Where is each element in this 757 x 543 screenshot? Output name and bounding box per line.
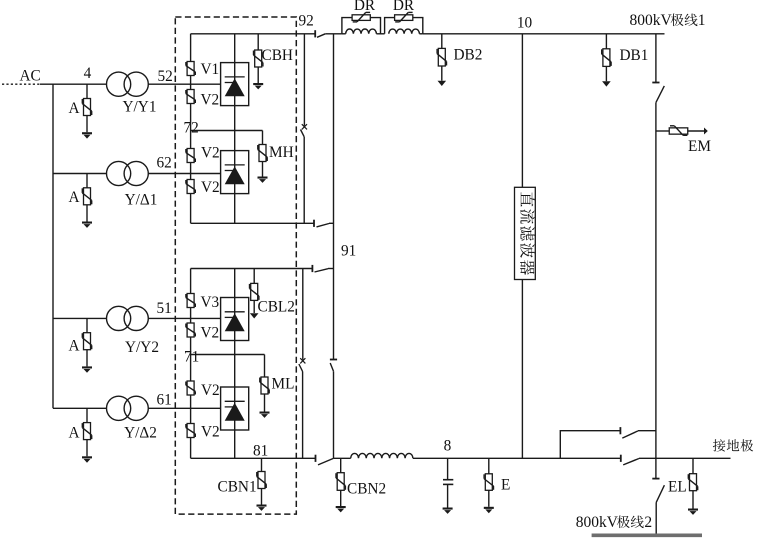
- svg-text:51: 51: [157, 300, 172, 317]
- svg-text:800kV: 800kV: [576, 514, 619, 531]
- disconnector lower inlet: [312, 265, 333, 272]
- svg-text:CBL2: CBL2: [258, 299, 295, 316]
- svg-text:A: A: [69, 425, 80, 442]
- label A3: [69, 338, 80, 355]
- svg-text:Y/Δ1: Y/Δ1: [125, 192, 158, 209]
- wire bypass line B: [302, 269, 304, 360]
- label A2: [69, 189, 80, 206]
- node 71: [184, 349, 199, 366]
- wire pole-1 drop: [655, 34, 657, 83]
- arrester MH: [258, 131, 268, 183]
- svg-text:V3: V3: [201, 294, 220, 311]
- arrester V1: [186, 62, 195, 76]
- svg-text:V2: V2: [201, 382, 220, 399]
- arrester DR1: [352, 12, 370, 22]
- svg-text:61: 61: [157, 392, 172, 409]
- arrester DB1: [602, 34, 611, 87]
- svg-text:4: 4: [84, 65, 92, 82]
- label CBH: [262, 47, 293, 64]
- arrester CBN1: [257, 458, 267, 511]
- wire AC incoming (dotted): [2, 83, 40, 85]
- svg-text:DB1: DB1: [620, 47, 649, 64]
- disconnector line A: [301, 124, 308, 223]
- label Y/Y1: [123, 99, 157, 116]
- svg-text:81: 81: [253, 443, 268, 460]
- reactor DR2 bypass loop: [385, 18, 423, 34]
- label ground electrode: [713, 439, 753, 451]
- label 800kV pole line 1: [630, 12, 706, 29]
- arrester E: [484, 458, 494, 513]
- svg-text:DR: DR: [354, 0, 376, 14]
- wire bypass line A: [303, 34, 305, 126]
- label A1: [69, 100, 80, 117]
- label DR2: [393, 0, 415, 14]
- node 71 wire: [191, 354, 265, 356]
- svg-text:V2: V2: [201, 179, 220, 196]
- svg-text:Y/Y2: Y/Y2: [125, 339, 159, 356]
- node 91: [341, 243, 356, 260]
- arrester EL: [688, 458, 698, 515]
- node 61: [157, 392, 172, 409]
- label V2a: [201, 92, 220, 109]
- svg-text:1: 1: [698, 12, 706, 29]
- arrester DR2: [395, 12, 413, 22]
- wire feeder to T3: [53, 317, 107, 319]
- wire T2 to valve: [148, 173, 220, 175]
- wire 92 bus left: [191, 33, 316, 35]
- label MH: [269, 144, 294, 161]
- arrester A3: [82, 318, 92, 372]
- svg-text:92: 92: [299, 13, 314, 30]
- wire 92 bus to reactor: [342, 33, 346, 35]
- label DR1: [354, 0, 376, 14]
- svg-text:EL: EL: [668, 479, 687, 496]
- arrester V2 lower-c: [186, 424, 195, 438]
- label DB2: [454, 47, 483, 64]
- label A4: [69, 425, 80, 442]
- arrester V2 upper-c: [186, 180, 195, 194]
- svg-text:52: 52: [158, 68, 173, 85]
- node 10: [517, 15, 533, 32]
- reactor DR1 bypass loop: [342, 18, 381, 34]
- wire valve1 center column: [234, 34, 236, 224]
- arrester A2: [82, 174, 92, 228]
- arrester DB2: [437, 34, 446, 86]
- valve group V-low-1: [221, 298, 249, 341]
- transformer T2 Y/D1: [107, 161, 149, 185]
- label EL: [668, 479, 687, 496]
- wire valve2 center column: [234, 269, 236, 459]
- svg-text:ML: ML: [272, 376, 295, 393]
- label Y/Delta2: [124, 425, 157, 442]
- transformer T3 Y/Y2: [107, 306, 149, 330]
- arrester A4: [82, 408, 92, 462]
- disconnector pole-1: [652, 83, 664, 479]
- label CBL2: [258, 299, 295, 316]
- label CBN2: [347, 481, 386, 498]
- svg-text:CBH: CBH: [262, 47, 293, 64]
- wire lower-left valve column: [190, 269, 192, 459]
- svg-text:AC: AC: [20, 68, 41, 85]
- node 72: [184, 120, 199, 137]
- label V2b: [201, 145, 220, 162]
- label Y/Y2: [125, 339, 159, 356]
- svg-text:DB2: DB2: [454, 47, 483, 64]
- disconnector bus outlet: [316, 455, 334, 465]
- DC filter box: [515, 187, 536, 279]
- disconnector line B: [299, 358, 306, 458]
- svg-text:91: 91: [341, 243, 356, 260]
- svg-text:10: 10: [517, 15, 533, 32]
- transformer T1 Y/Y1: [107, 72, 149, 96]
- arrester V2 upper-b: [186, 149, 195, 163]
- label ML: [272, 376, 295, 393]
- wire AC bus to transformer T1: [40, 83, 107, 85]
- wire 800kV pole line 2 bar: [592, 533, 702, 537]
- label EM: [688, 138, 711, 155]
- wire upper-left valve column: [190, 34, 192, 224]
- node 52: [158, 68, 173, 85]
- wire upper group outlet: [191, 222, 314, 224]
- svg-text:Y/Y1: Y/Y1: [123, 99, 157, 116]
- wire T4 to valve: [148, 407, 220, 409]
- svg-text:62: 62: [157, 155, 172, 172]
- label CBN1: [218, 479, 257, 496]
- label V2e: [201, 382, 220, 399]
- valve group V-high-2: [221, 151, 249, 194]
- wire line 91 vertical: [333, 34, 335, 360]
- dashed converter enclosure: [175, 17, 296, 514]
- wire feeder to T4: [53, 407, 107, 409]
- valve group V-low-2: [221, 387, 249, 430]
- label DB1: [620, 47, 649, 64]
- label DC filter (vertical): [520, 192, 535, 275]
- svg-text:Y/Δ2: Y/Δ2: [124, 425, 157, 442]
- svg-text:CBN2: CBN2: [347, 481, 386, 498]
- disconnector bypass upper: [620, 427, 656, 438]
- arrester CBL2: [250, 269, 259, 319]
- arrester EM branch: [656, 126, 704, 136]
- arrester ML: [260, 355, 270, 418]
- svg-text:V1: V1: [201, 61, 220, 78]
- node 8: [444, 438, 452, 455]
- wire bus to reactor: [333, 457, 351, 459]
- label V3: [201, 294, 220, 311]
- node 62: [157, 155, 172, 172]
- svg-text:V2: V2: [201, 424, 220, 441]
- label V2c: [201, 179, 220, 196]
- label 800kV pole line 2: [576, 514, 652, 531]
- label V2d: [201, 325, 220, 342]
- wire AC feeder vertical: [52, 84, 54, 408]
- wire DC filter lower: [521, 280, 523, 459]
- svg-text:2: 2: [644, 514, 652, 531]
- svg-text:A: A: [69, 100, 80, 117]
- node 51: [157, 300, 172, 317]
- svg-text:71: 71: [184, 349, 199, 366]
- arrester CBN2: [336, 458, 346, 512]
- arrester V2 lower-a: [186, 323, 195, 337]
- reactor neutral bus coil: [351, 453, 413, 458]
- label AC: [20, 68, 41, 85]
- wire neutral bus: [413, 457, 621, 459]
- svg-text:A: A: [69, 189, 80, 206]
- wire feeder to T2: [53, 173, 107, 175]
- reactor DR2 coil: [389, 29, 423, 34]
- wire lower group inlet: [191, 268, 313, 270]
- arrester CBH: [253, 34, 263, 90]
- arrester V3: [186, 294, 195, 308]
- svg-text:A: A: [69, 338, 80, 355]
- label V2f: [201, 424, 220, 441]
- wire T1 to valve V1: [148, 83, 220, 85]
- wire bypass branch: [560, 431, 620, 459]
- svg-text:CBN1: CBN1: [218, 479, 257, 496]
- svg-text:MH: MH: [269, 144, 294, 161]
- valve group V-high-1: [221, 63, 249, 106]
- disconnector pole-2: [656, 485, 664, 533]
- svg-text:8: 8: [444, 438, 452, 455]
- arrester A1: [82, 84, 92, 138]
- node 81: [253, 443, 268, 460]
- transformer T4 Y/D2: [107, 396, 149, 420]
- svg-text:E: E: [501, 477, 510, 494]
- svg-text:V2: V2: [201, 145, 220, 162]
- arrester V2 upper-a: [186, 90, 195, 104]
- wire ground electrode bus left: [191, 457, 316, 459]
- disconnector bus right: [621, 455, 731, 465]
- arrester V2 lower-b: [186, 381, 195, 395]
- svg-text:72: 72: [184, 120, 199, 137]
- disconnector on 92 bus: [315, 30, 342, 37]
- node 72 wire: [191, 130, 263, 132]
- node 4: [84, 65, 92, 82]
- disconnector line 91: [330, 360, 337, 459]
- svg-text:V2: V2: [201, 325, 220, 342]
- reactor DR1 coil: [346, 29, 385, 34]
- svg-text:V2: V2: [201, 92, 220, 109]
- disconnector upper outlet: [314, 220, 334, 227]
- svg-text:EM: EM: [688, 138, 711, 155]
- capacitor neutral: [443, 458, 454, 514]
- svg-text:DR: DR: [393, 0, 415, 14]
- wire DC filter upper: [521, 34, 523, 188]
- label E: [501, 477, 510, 494]
- node 92: [299, 13, 314, 30]
- label Y/Delta1: [125, 192, 158, 209]
- wire T3 to valve: [148, 317, 220, 319]
- label V1: [201, 61, 220, 78]
- wire 800kV pole bus: [423, 33, 665, 35]
- svg-text:800kV: 800kV: [630, 12, 673, 29]
- arrow EM line exit: [704, 128, 708, 135]
